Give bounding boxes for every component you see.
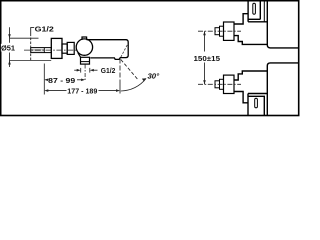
top stub (shower outlet up) <box>82 37 87 40</box>
bottom handle <box>248 94 264 116</box>
bottom handle base line <box>248 93 267 95</box>
valve body circle <box>76 39 92 55</box>
svg-text:30°: 30° <box>147 72 160 81</box>
177-189 dimension <box>44 89 120 92</box>
outlet divider line <box>81 61 90 63</box>
body ring <box>67 42 74 54</box>
top inlet: stub <box>215 28 220 35</box>
G1/2 bottom dimension (outlet) <box>74 68 97 73</box>
top inlet: union nut <box>224 22 235 40</box>
bottom inlet: washer <box>220 79 224 89</box>
neck between flange and body ring <box>62 44 67 53</box>
bottom inlet: stub <box>215 81 220 88</box>
bottom adapter upper staircase (toward middle) <box>234 71 267 80</box>
G1/2 top label + leader <box>31 28 35 61</box>
spout end diagonal <box>121 45 127 57</box>
top handle <box>248 2 260 22</box>
bottom inlet: union nut <box>224 75 235 93</box>
inlet nipple G1/2 <box>31 48 52 53</box>
top collar step <box>263 2 265 22</box>
30 deg swivel dashed line <box>121 60 139 81</box>
top adapter upper profile <box>234 14 248 24</box>
inlet centerlines <box>198 30 241 32</box>
border frame <box>1 1 299 116</box>
svg-text:G1/2: G1/2 <box>101 68 116 75</box>
svg-text:177 - 189: 177 - 189 <box>67 86 97 95</box>
hand shower outlet (bottom) <box>81 57 90 64</box>
svg-text:Ø51: Ø51 <box>1 44 15 53</box>
nipple mid tick (wall face) <box>43 48 45 53</box>
top inlet: washer <box>220 26 224 36</box>
wall flange (escutcheon) <box>51 38 62 58</box>
30 deg arc with arrow <box>121 79 146 92</box>
body bottom-left slant to outlet <box>78 53 81 58</box>
svg-text:G1/2: G1/2 <box>35 25 54 34</box>
Ø51 dimension <box>8 27 51 67</box>
150±15 dimension <box>203 31 206 84</box>
body upper block <box>267 2 298 48</box>
87-99 dimension <box>44 64 85 95</box>
top handle slot <box>253 3 256 14</box>
svg-text:87 - 99: 87 - 99 <box>48 76 75 85</box>
body lower block <box>267 63 298 116</box>
bottom handle slot <box>255 98 258 108</box>
bottom adapter lower profile <box>234 92 248 103</box>
svg-text:150±15: 150±15 <box>194 54 221 63</box>
top adapter lower staircase <box>234 36 267 45</box>
spout outline <box>87 40 129 60</box>
center line below outlet <box>84 65 86 82</box>
boss top line <box>248 21 267 23</box>
spout pivot vertical dashed + ext <box>119 59 121 85</box>
center line horizontal (inlet axis) <box>24 49 78 51</box>
nipple thread texture <box>32 48 45 50</box>
